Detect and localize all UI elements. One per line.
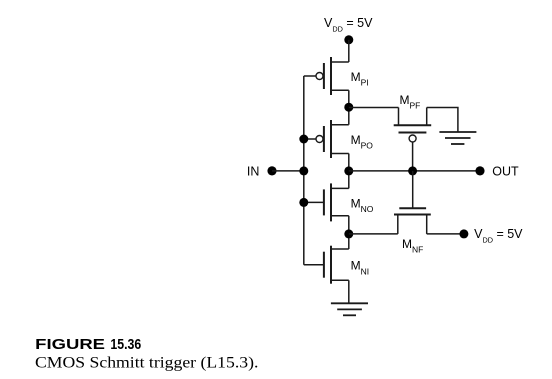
- wire MNO gate to bus: [304, 201, 324, 203]
- label MNO: [351, 196, 374, 214]
- ground (MNI): [331, 303, 368, 315]
- wire IN to bus: [272, 170, 304, 172]
- svg-text:15.36: 15.36: [110, 337, 141, 353]
- label MPO: [351, 133, 374, 151]
- wire MNI source to ground: [348, 280, 350, 303]
- transistor MPI (PMOS): [316, 57, 349, 95]
- label MNI: [351, 259, 370, 277]
- power VDD1 label "VDD = 5V": [324, 16, 373, 33]
- transistor MNI (NMOS): [324, 246, 349, 284]
- wire MPO gate to bus: [304, 138, 316, 140]
- wire MPO source to MNO drain (through output node): [348, 154, 350, 189]
- wire OUT line to MNF gate: [412, 171, 414, 208]
- node B junction dot (MNO source / MNI drain / MNF source): [344, 229, 353, 238]
- wire MPI source to MPO drain (through node A): [348, 90, 350, 124]
- wire bus to MNI gate: [304, 264, 324, 266]
- transistor MNF (NMOS, horizontal): [394, 208, 431, 234]
- node bus-MNO gate junction dot: [299, 198, 308, 207]
- svg-text:MPO: MPO: [351, 133, 374, 151]
- wire output node to OUT terminal: [349, 170, 480, 172]
- transistor MNO (NMOS): [324, 183, 349, 221]
- node VDD2 terminal dot: [459, 229, 468, 238]
- node bus-IN junction dot: [299, 166, 308, 175]
- ground (MPF): [439, 132, 476, 144]
- power VDD2 label "VDD = 5V": [474, 227, 523, 244]
- node OUT terminal dot: [475, 166, 484, 175]
- wire MPI gate to bus: [304, 75, 316, 77]
- transistor MPF (PMOS, horizontal): [394, 108, 432, 143]
- svg-text:MPI: MPI: [351, 70, 369, 88]
- wire MPF gate bubble to OUT line: [412, 142, 414, 171]
- wire node A to MPF source leg: [349, 107, 399, 109]
- node MPF-gate/OUT-line junction dot: [408, 166, 417, 175]
- wire gate bus vertical: [303, 76, 305, 265]
- transistor MPO (PMOS): [316, 120, 349, 158]
- node A junction dot (MPI source / MPO drain / MPF source): [344, 103, 353, 112]
- svg-text:VDD = 5V: VDD = 5V: [324, 16, 373, 33]
- label IN: [247, 164, 260, 178]
- wire node B to MNF left leg: [349, 233, 398, 235]
- svg-text:MNO: MNO: [351, 196, 374, 214]
- node output rail junction dot: [344, 166, 353, 175]
- svg-text:FIGURE: FIGURE: [35, 337, 105, 353]
- wire MNO source to MNI drain (through node B): [348, 216, 350, 249]
- node IN terminal dot: [267, 166, 276, 175]
- svg-text:OUT: OUT: [492, 164, 519, 178]
- svg-text:VDD = 5V: VDD = 5V: [474, 227, 523, 244]
- label MNF: [402, 237, 423, 255]
- wire MNF right leg to VDD2: [427, 233, 464, 235]
- svg-text:CMOS Schmitt trigger (L15.3).: CMOS Schmitt trigger (L15.3).: [35, 354, 258, 371]
- caption CMOS Schmitt trigger (L15.3).: [35, 354, 258, 371]
- label MPI: [351, 70, 369, 88]
- label OUT: [492, 164, 519, 178]
- wire MPF drain to ground: [427, 108, 458, 133]
- svg-text:MNF: MNF: [402, 237, 423, 255]
- svg-text:MNI: MNI: [351, 259, 370, 277]
- node bus-MPO gate junction dot: [299, 135, 308, 144]
- svg-text:MPF: MPF: [400, 93, 421, 111]
- node VDD1 terminal dot: [344, 35, 353, 44]
- caption FIGURE 15.36: [35, 337, 141, 353]
- wire VDD1 dot to MPI drain: [348, 40, 350, 62]
- svg-text:IN: IN: [247, 164, 260, 178]
- label MPF: [400, 93, 421, 111]
